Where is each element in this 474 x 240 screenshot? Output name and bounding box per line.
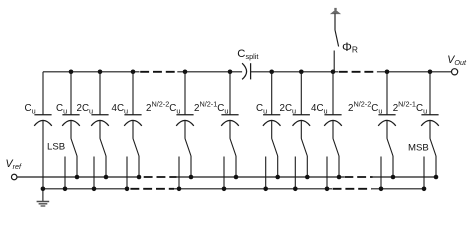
- svg-text:2N/2-2Cu: 2N/2-2Cu: [348, 100, 382, 116]
- supply arrow (reset reference): [330, 8, 341, 14]
- ground bus wire, dashed continuation (right array): [333, 188, 372, 190]
- svg-text:2Cu: 2Cu: [280, 103, 297, 115]
- top plate bus wire, right solid segment to Vout: [377, 71, 452, 73]
- Vref input terminal: [11, 174, 17, 180]
- junction: 2Cu (right array) top plate on bus: [299, 70, 304, 75]
- svg-text:2N/2-1Cu: 2N/2-1Cu: [194, 100, 228, 116]
- capacitor 2Cu (right array): [293, 72, 311, 126]
- junction: 2^(N/2-1)Cu (MSB) top plate on bus: [428, 70, 433, 75]
- top plate bus wire, dashed continuation (left array): [140, 71, 177, 73]
- capacitor 2Cu: [91, 72, 109, 126]
- svg-text:Cu: Cu: [56, 103, 67, 115]
- svg-text:ΦR: ΦR: [342, 40, 358, 55]
- switch S8: [325, 120, 342, 191]
- top plate bus wire, segment to Csplit: [177, 71, 242, 73]
- switch PhiR (reset switch flipper): [335, 14, 339, 47]
- junction: Cu (right array) top plate on bus: [269, 70, 274, 75]
- Vref bus wire, right solid segment: [373, 176, 437, 178]
- switch S9: [379, 120, 396, 191]
- svg-text:2Cu: 2Cu: [77, 103, 94, 115]
- switch S5: [222, 120, 239, 191]
- ground: [37, 189, 50, 206]
- Vout output terminal: [452, 69, 458, 75]
- junction: Cu (LSB) top plate on bus: [69, 70, 74, 75]
- capacitor Cu (right array): [263, 72, 281, 126]
- junction: 2^(N/2-2)Cu (right) top plate on bus: [385, 70, 390, 75]
- wire: PhiR contact to top bus: [333, 51, 335, 72]
- svg-text:Cu: Cu: [256, 103, 267, 115]
- Vref bus wire, left solid segment: [17, 176, 141, 178]
- capacitor Csplit (series split cap in top bus): [242, 63, 251, 79]
- top plate bus wire, left solid segment: [43, 71, 140, 73]
- Vref bus wire, dashed continuation (right array): [344, 176, 372, 178]
- switch S7: [293, 120, 310, 191]
- capacitor 2^(N/2-1)Cu (MSB): [421, 72, 439, 126]
- svg-text:2N/2-2Cu: 2N/2-2Cu: [146, 100, 180, 116]
- svg-text:4Cu: 4Cu: [311, 103, 328, 115]
- switch S3: [125, 120, 142, 191]
- capacitor 2^(N/2-2)Cu: [176, 72, 194, 126]
- svg-text:Vref: Vref: [6, 158, 22, 171]
- Vref bus wire, middle solid segment: [177, 176, 345, 178]
- ground bus wire, left solid segment: [43, 188, 129, 190]
- svg-text:LSB: LSB: [47, 142, 65, 153]
- junction: 4Cu (right array) top plate on bus: [331, 70, 336, 75]
- junction: 2Cu top plate on bus: [98, 70, 103, 75]
- junction: 4Cu top plate on bus: [131, 70, 136, 75]
- switch S2: [92, 120, 109, 191]
- capacitor 4Cu (right array): [324, 72, 342, 126]
- svg-text:4Cu: 4Cu: [112, 103, 129, 115]
- capacitor Cu (LSB): [62, 72, 80, 126]
- svg-text:Cu: Cu: [25, 103, 36, 115]
- top plate bus wire, dashed continuation (right array): [339, 71, 377, 73]
- Vref bus wire, dashed continuation (left array): [144, 176, 177, 178]
- junction: 2^(N/2-2)Cu top plate on bus: [183, 70, 188, 75]
- svg-text:MSB: MSB: [408, 143, 429, 154]
- switch S4: [177, 120, 194, 191]
- svg-text:VOut: VOut: [447, 54, 467, 67]
- capacitor 2^(N/2-1)Cu: [221, 72, 239, 126]
- switch S6: [263, 120, 280, 191]
- ground bus wire, dashed continuation (left array): [130, 188, 174, 190]
- junction: 2^(N/2-1)Cu top plate on bus: [228, 70, 233, 75]
- capacitor Cu dummy (leftmost), bottom tied to ground rail: [34, 72, 52, 189]
- svg-text:2N/2-1Cu: 2N/2-1Cu: [393, 100, 427, 116]
- capacitor 2^(N/2-2)Cu (right): [378, 72, 396, 126]
- capacitor 4Cu: [124, 72, 142, 126]
- ground bus wire, middle solid segment: [174, 188, 332, 190]
- junction: dummy cap / ground rail: [41, 187, 46, 192]
- svg-text:Csplit: Csplit: [237, 48, 258, 61]
- top plate bus wire, Csplit to right array: [251, 71, 339, 73]
- ground bus wire, right solid segment: [371, 188, 424, 190]
- switch S1 (LSB bit switch): [63, 120, 80, 191]
- switch S10: [422, 120, 439, 191]
